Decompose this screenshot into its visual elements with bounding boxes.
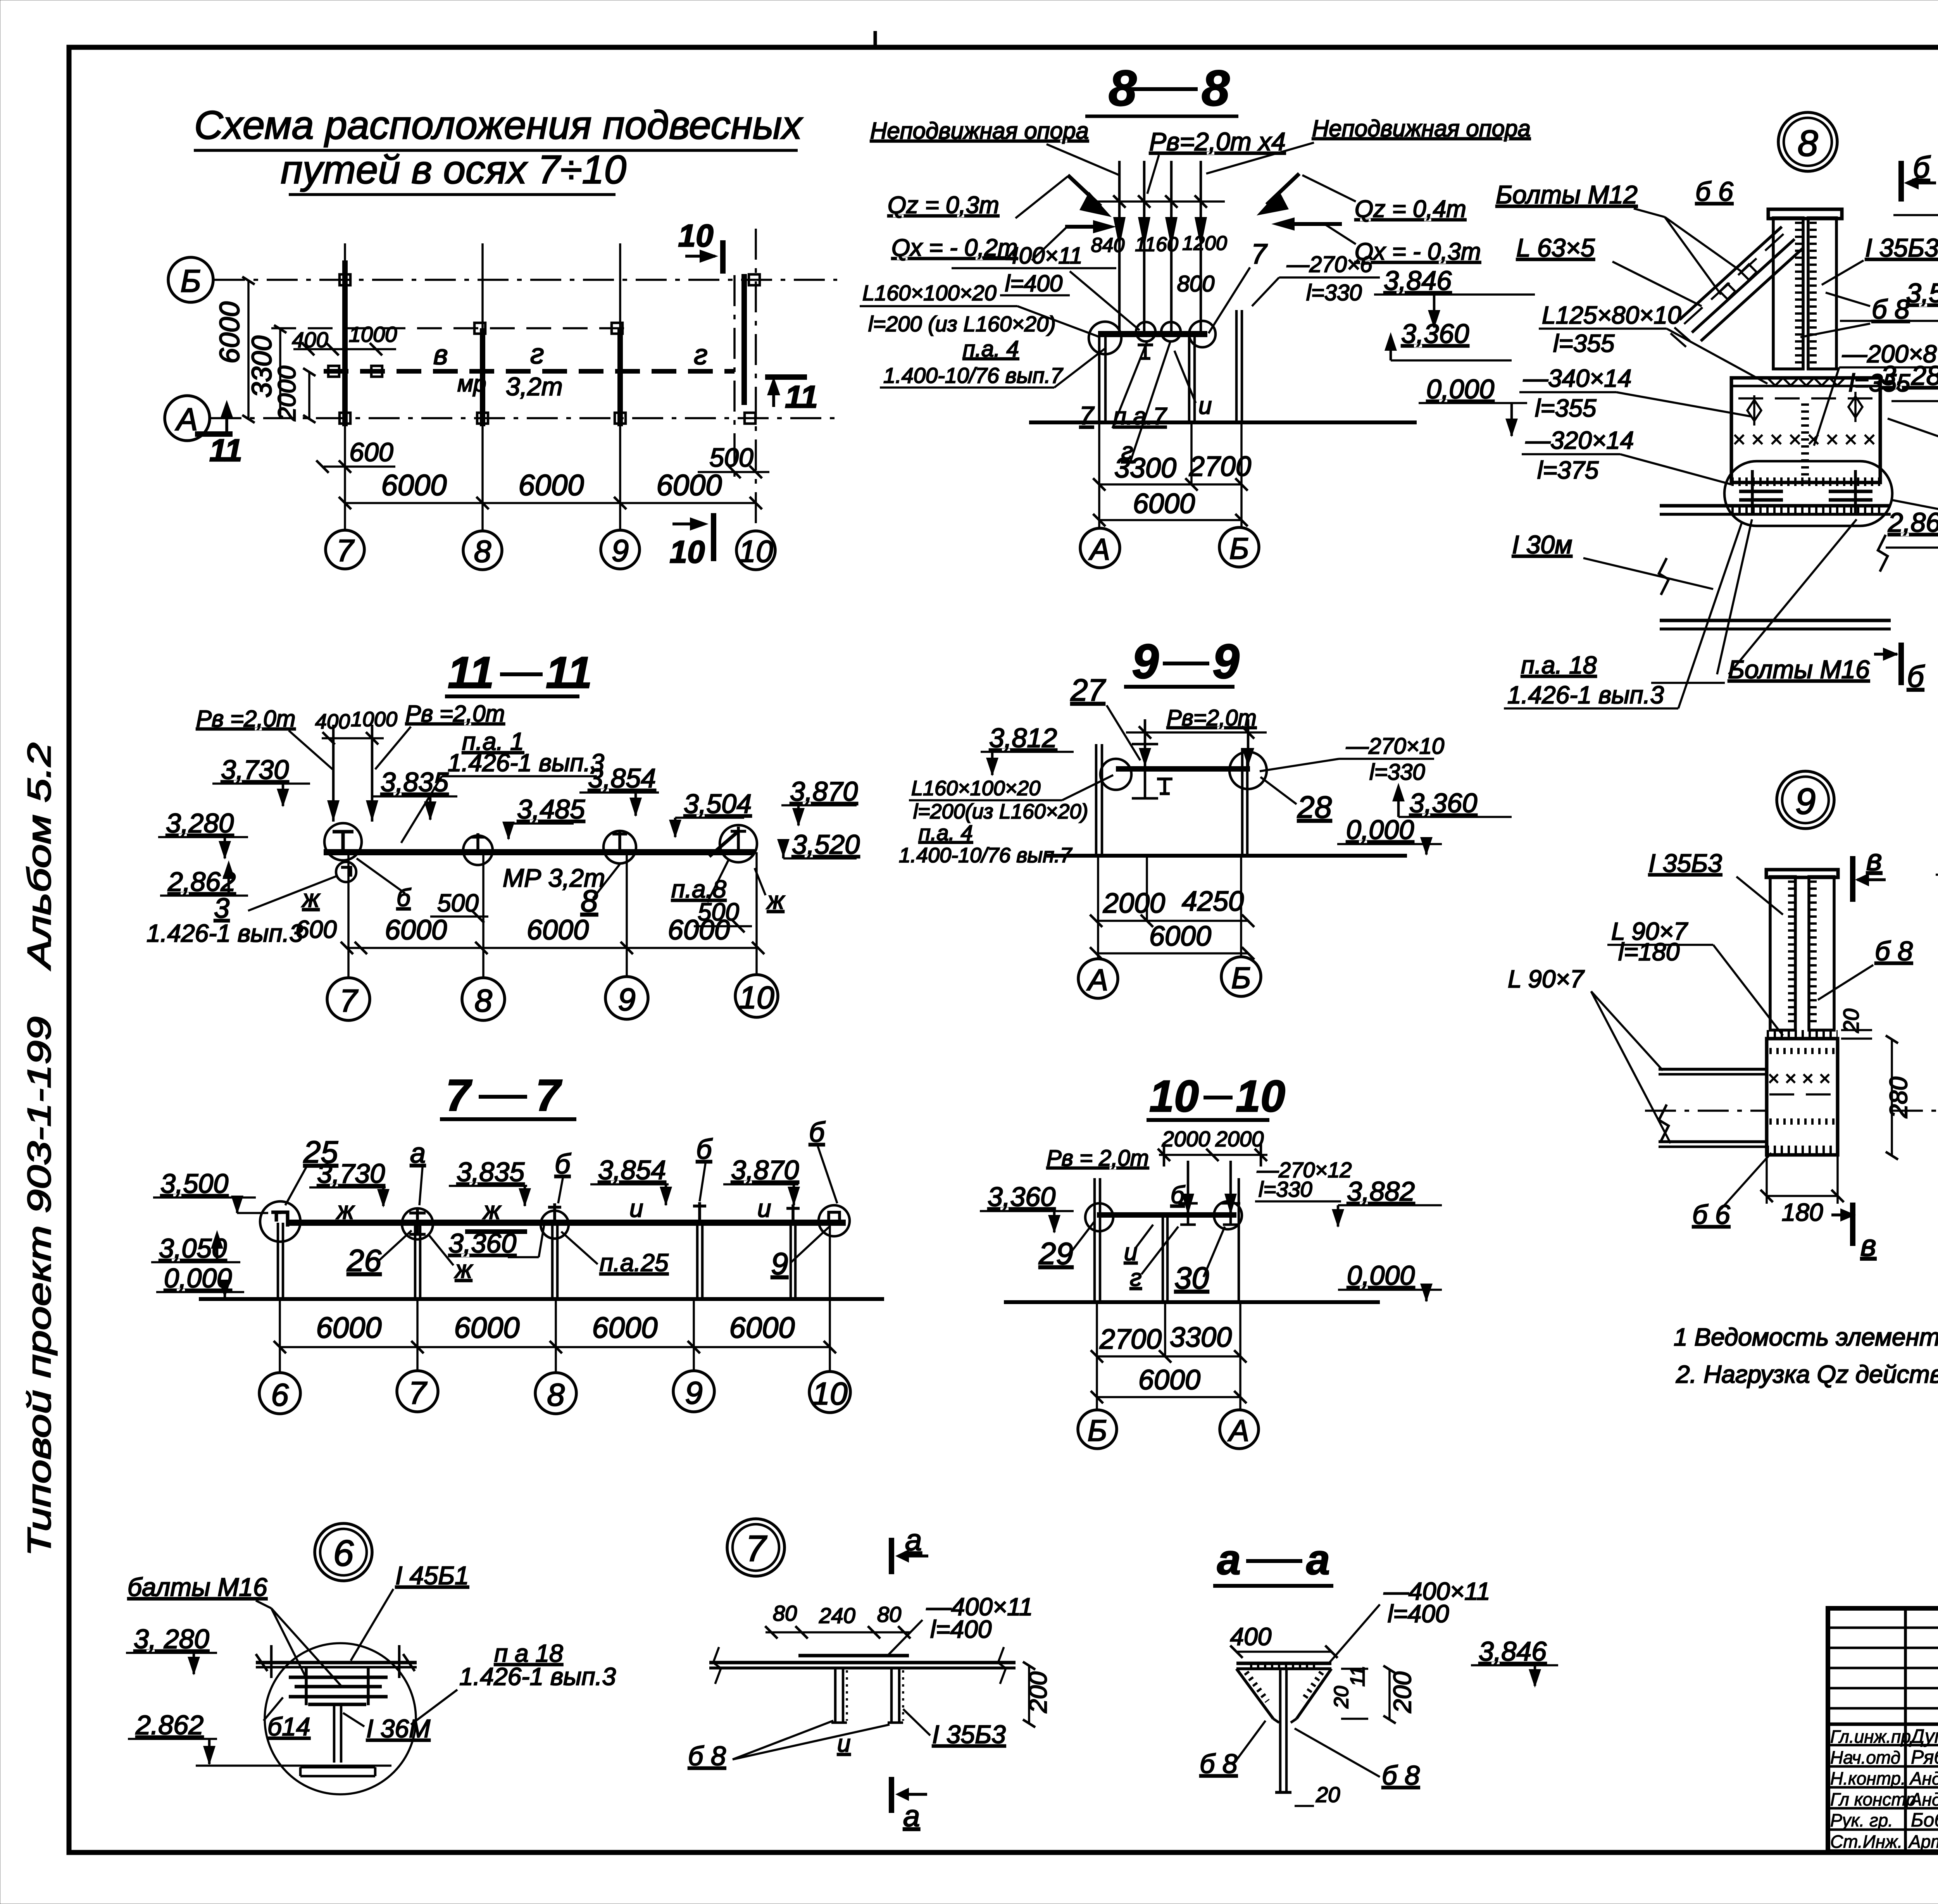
plate top (а-а): [1236, 1662, 1331, 1665]
axis bubble 8: [463, 531, 502, 570]
svg-text:I 45Б1: I 45Б1: [395, 1561, 469, 1590]
joint circle axis10: [720, 825, 757, 862]
title underline: [1124, 685, 1235, 689]
svg-text:6: 6: [271, 1377, 289, 1413]
svg-text:200: 200: [1388, 1671, 1416, 1713]
svg-text:Болты М16: Болты М16: [1728, 655, 1870, 684]
axis bubble 7: [397, 1371, 438, 1412]
svg-text:9: 9: [612, 533, 629, 568]
axis line 7: [344, 243, 346, 531]
svg-text:а: а: [410, 1138, 426, 1169]
svg-text:Б: Б: [180, 264, 201, 299]
svg-text:Нач.отд: Нач.отд: [1830, 1747, 1900, 1768]
node bubble 8: [1778, 112, 1837, 171]
svg-text:Б: Б: [1088, 1413, 1107, 1447]
box bolts diamonds: [1747, 400, 1761, 421]
axis line Б: [214, 279, 837, 281]
node bubble 7: [727, 1519, 785, 1576]
column Б (8-8): [1235, 310, 1238, 422]
axis bubble 10 (11-11): [735, 975, 778, 1017]
svg-text:1 Ведомость элементов дана: 1 Ведомость элементов дана на листе КМ- …: [1674, 1323, 1938, 1351]
svg-text:Неподвижная опора: Неподвижная опора: [1312, 115, 1531, 141]
svg-text:I 35Б3: I 35Б3: [1865, 233, 1938, 262]
section marker в top (node9): [1850, 856, 1855, 902]
axis bubble 8: [535, 1373, 576, 1414]
svg-text:6000: 6000: [1149, 921, 1211, 952]
svg-text:3,485: 3,485: [517, 794, 585, 824]
svg-text:Андриевская: Андриевская: [1909, 1768, 1938, 1789]
beam soffit line node6: [256, 1661, 417, 1664]
svg-text:2000: 2000: [1103, 888, 1165, 919]
svg-text:9: 9: [1132, 635, 1159, 689]
web (а-а): [1279, 1669, 1282, 1792]
column A stem (9-9): [1095, 744, 1098, 856]
svg-text:26: 26: [347, 1243, 381, 1278]
beam centerline dashdot (node9): [1645, 1110, 1767, 1112]
column A (8-8): [1098, 337, 1101, 422]
axis bubble 10: [809, 1372, 850, 1413]
axis bubble 9 (11-11): [605, 977, 648, 1019]
svg-text:3,2т: 3,2т: [506, 372, 563, 401]
svg-text:3,504: 3,504: [684, 789, 752, 819]
axis line 8: [481, 243, 484, 531]
dim 6000 (10-10): [1097, 1396, 1240, 1398]
title underline 2: [289, 193, 616, 196]
hanger axis8: [548, 1203, 561, 1223]
beam axis 9: [617, 328, 623, 426]
svg-text:1.426-1 вып.3: 1.426-1 вып.3: [147, 919, 303, 947]
svg-text:I 35Б3: I 35Б3: [932, 1720, 1006, 1749]
svg-text:Рв =2,0т: Рв =2,0т: [405, 701, 505, 727]
dim 2700/3300: [1097, 1355, 1240, 1358]
svg-text:11: 11: [448, 648, 494, 698]
xxx weld band (node8): [1735, 435, 1874, 444]
joint circle 3: [1161, 322, 1181, 341]
column Б stem (10-10): [1093, 1178, 1096, 1302]
load ticks 9-9: [1126, 731, 1267, 734]
svg-text:б 6: б 6: [1695, 176, 1733, 207]
svg-text:2. Нагрузка Qz действует вд: 2. Нагрузка Qz действует вдоль трассы: [1676, 1360, 1938, 1388]
dim 200 (а-а): [1388, 1669, 1391, 1719]
svg-text:3,360: 3,360: [448, 1228, 516, 1258]
svg-text:а: а: [903, 1799, 920, 1833]
svg-text:8: 8: [474, 534, 491, 569]
track symbol below beam: [1138, 345, 1153, 358]
svg-text:Qx = - 0,3т: Qx = - 0,3т: [1355, 238, 1481, 265]
svg-text:б 8: б 8: [1200, 1749, 1238, 1779]
svg-text:6000: 6000: [316, 1311, 381, 1344]
svg-text:Рв = 2,0т: Рв = 2,0т: [1047, 1146, 1149, 1171]
column 35Б3 left flange (node8): [1773, 218, 1803, 369]
svg-text:l=375: l=375: [1537, 456, 1599, 484]
svg-text:4250: 4250: [1182, 886, 1244, 917]
joint circle right (10-10): [1214, 1201, 1242, 1229]
bracket box (node8): [1731, 378, 1880, 482]
svg-text:3, 280: 3, 280: [134, 1624, 209, 1654]
svg-text:l=355: l=355: [1535, 394, 1597, 422]
hanger axis9: [693, 1202, 706, 1223]
svg-text:3300: 3300: [1170, 1322, 1232, 1353]
svg-text:ж: ж: [482, 1196, 502, 1224]
svg-text:ж: ж: [454, 1255, 473, 1283]
xxx band (node9): [1769, 1074, 1829, 1083]
svg-text:—340×14: —340×14: [1523, 364, 1631, 392]
svg-text:L 63×5: L 63×5: [1516, 233, 1595, 262]
load arrow 4: [1200, 161, 1202, 333]
detail loop (node8): [1724, 461, 1892, 526]
svg-text:3,360: 3,360: [1409, 788, 1477, 818]
svg-text:б14: б14: [267, 1712, 310, 1741]
svg-text:9: 9: [771, 1246, 788, 1281]
svg-text:l=400: l=400: [1388, 1600, 1449, 1628]
detail circle node6: [265, 1643, 416, 1794]
joint circle 2: [1136, 322, 1155, 341]
anchor bolts (node8): [1751, 470, 1754, 515]
svg-text:Рябуха: Рябуха: [1911, 1746, 1938, 1768]
svg-text:3,835: 3,835: [457, 1157, 525, 1187]
svg-text:Б: Б: [1229, 531, 1249, 565]
title underline: [1085, 115, 1238, 118]
beam from left top (node9): [1659, 1068, 1767, 1071]
level line 2.862 node6: [196, 1764, 391, 1767]
svg-text:п.а.25: п.а.25: [600, 1249, 669, 1277]
node bubble 9: [1777, 771, 1834, 829]
svg-text:Андриевская: Андриевская: [1909, 1789, 1938, 1809]
svg-text:б 8: б 8: [688, 1741, 726, 1771]
axis bubble 7: [326, 530, 364, 569]
seat toothed (node9): [1767, 1030, 1838, 1038]
svg-text:Гл констр: Гл констр: [1830, 1789, 1916, 1809]
svg-text:7: 7: [1079, 401, 1095, 430]
beam 9-9: [1116, 766, 1250, 772]
svg-text:l=200 (из L160×20): l=200 (из L160×20): [868, 312, 1056, 336]
title underline 1: [194, 149, 798, 152]
svg-text:Ст.Инж.: Ст.Инж.: [1830, 1832, 1902, 1852]
svg-text:600: 600: [349, 438, 393, 467]
joint circle right: [1189, 321, 1216, 347]
svg-text:а: а: [1306, 1536, 1330, 1584]
svg-text:80: 80: [877, 1602, 901, 1627]
beam axis 8: [480, 328, 485, 426]
joint circle left (9-9): [1100, 759, 1131, 790]
svg-text:800: 800: [1177, 271, 1215, 296]
box dashes: [1769, 1093, 1835, 1096]
hanger stem (10-10): [1162, 1215, 1164, 1302]
dim line 7-7: [280, 1346, 830, 1348]
column 35Б3 right flange (node8): [1808, 218, 1836, 369]
suspension ticks (9-9): [1144, 767, 1147, 798]
svg-text:l=330: l=330: [1369, 760, 1425, 785]
seat weld band top (node8): [1731, 385, 1880, 388]
svg-text:3,812: 3,812: [989, 723, 1057, 753]
top centering tick: [874, 31, 877, 47]
track stub 7-7: [465, 1229, 527, 1234]
svg-text:п.а. 18: п.а. 18: [1521, 651, 1597, 679]
svg-text:3,846: 3,846: [1479, 1636, 1547, 1666]
axis stems (9-9): [1097, 856, 1099, 959]
svg-text:20: 20: [1316, 1782, 1340, 1807]
axis bubble 8 (11-11): [462, 978, 505, 1020]
svg-text:А: А: [1228, 1413, 1249, 1447]
load arrows 10-10: [1187, 1161, 1190, 1213]
beam axis 10: [741, 274, 747, 405]
svg-text:11: 11: [209, 433, 242, 468]
svg-text:б: б: [809, 1117, 826, 1148]
svg-text:3,730: 3,730: [221, 755, 289, 785]
svg-text:0,000: 0,000: [1346, 815, 1414, 845]
intermediate dashed line: [271, 327, 636, 329]
I beam 36М node6: [308, 1703, 366, 1706]
joint circle axis8: [463, 836, 493, 865]
svg-text:Рв =2,0т: Рв =2,0т: [196, 706, 295, 732]
svg-text:3,500: 3,500: [160, 1168, 228, 1199]
svg-text:2700: 2700: [1099, 1324, 1162, 1355]
axis bubble Б (10-10): [1078, 1410, 1117, 1449]
axis bubble А (10-10): [1220, 1410, 1259, 1449]
svg-text:20: 20: [1330, 1686, 1353, 1709]
axis bubble Б (9-9): [1221, 957, 1261, 996]
svg-text:ж: ж: [766, 886, 785, 914]
svg-text:и: и: [629, 1194, 643, 1222]
svg-text:ж: ж: [336, 1196, 355, 1224]
hanger post: [786, 1204, 800, 1223]
svg-text:6000: 6000: [385, 915, 447, 946]
Qx left arrow: [1065, 225, 1097, 229]
section marker в bottom (node9): [1850, 1203, 1855, 1246]
svg-text:а: а: [905, 1523, 922, 1557]
svg-text:Болты М12: Болты М12: [1496, 180, 1638, 209]
small dim line 400/1000: [293, 348, 396, 350]
svg-text:3,504: 3,504: [1906, 278, 1938, 308]
bottom toothed band (node8): [1731, 477, 1880, 486]
svg-text:6000: 6000: [1133, 488, 1195, 519]
svg-text:г: г: [1130, 1265, 1142, 1291]
svg-text:L 90×7: L 90×7: [1508, 965, 1585, 993]
svg-text:3,870: 3,870: [790, 776, 858, 806]
svg-text:1.426-1 вып.3: 1.426-1 вып.3: [459, 1663, 616, 1690]
plate 400x11 (node7): [798, 1654, 909, 1658]
column top cap (node8): [1768, 209, 1842, 219]
svg-text:и: и: [757, 1194, 771, 1222]
load arrow 2: [1143, 161, 1146, 333]
axis bubble 10: [736, 531, 775, 570]
axis stems (10-10): [1096, 1302, 1098, 1410]
diagonal brace L63x5 (node8): [1679, 227, 1782, 320]
svg-text:в: в: [433, 339, 448, 370]
svg-text:280: 280: [1885, 1077, 1912, 1118]
svg-text:в: в: [1866, 843, 1882, 877]
title underline: [440, 1117, 576, 1121]
svg-text:7: 7: [536, 1071, 562, 1120]
dim 2000/4250: [1096, 920, 1248, 922]
joint circle axis10: [819, 1205, 850, 1236]
joint I-symbol axis7: [324, 823, 362, 860]
svg-text:7: 7: [336, 533, 355, 568]
svg-text:3,846: 3,846: [1384, 265, 1452, 296]
column plate squares: [340, 274, 350, 285]
load arrow 3: [1170, 161, 1173, 333]
svg-text:8: 8: [581, 884, 598, 918]
bottom dimension line: [345, 502, 756, 504]
svg-text:11: 11: [546, 648, 592, 698]
axis line А: [210, 417, 837, 419]
svg-text:0,000: 0,000: [1347, 1260, 1415, 1291]
marker а bottom (node7): [889, 1777, 894, 1813]
break mark beam left: [1659, 558, 1669, 595]
svg-text:балты М16: балты М16: [128, 1573, 267, 1601]
svg-text:7: 7: [746, 1528, 767, 1569]
svg-text:Рв=2,0т х4: Рв=2,0т х4: [1149, 127, 1286, 156]
svg-text:3,854: 3,854: [598, 1155, 666, 1185]
svg-text:А: А: [1088, 532, 1110, 566]
axis bubble 6: [259, 1373, 300, 1414]
svg-text:8: 8: [1798, 123, 1818, 164]
track symbol (9-9): [1157, 779, 1172, 794]
svg-text:1.400-10/76 вып.7: 1.400-10/76 вып.7: [883, 363, 1063, 388]
svg-text:27: 27: [1070, 673, 1106, 707]
svg-text:600: 600: [295, 915, 337, 943]
bolted plates node6: [289, 1676, 388, 1679]
ground line 8-8: [1029, 420, 1417, 424]
hook below axis7: [336, 862, 356, 882]
joint circle axis9: [603, 831, 636, 863]
svg-text:6000: 6000: [592, 1311, 657, 1344]
svg-text:l=400: l=400: [930, 1615, 992, 1643]
rib 2 (node7): [890, 1668, 893, 1723]
svg-text:11: 11: [785, 379, 818, 415]
svg-text:6: 6: [333, 1533, 354, 1574]
hatch on slants: [1246, 1672, 1267, 1701]
svg-text:и: и: [1198, 393, 1212, 419]
column 35Б3 left flange (node9): [1770, 877, 1795, 1030]
svg-text:840: 840: [1091, 234, 1125, 257]
svg-text:6000: 6000: [668, 915, 730, 946]
svg-text:1160: 1160: [1135, 233, 1178, 256]
svg-text:28: 28: [1297, 790, 1332, 824]
svg-text:8: 8: [1202, 60, 1230, 116]
svg-text:2000: 2000: [273, 365, 301, 421]
axis line 10: [755, 229, 757, 531]
svg-text:Думан: Думан: [1909, 1725, 1938, 1747]
beam 10-10: [1097, 1212, 1236, 1218]
svg-text:10: 10: [739, 534, 773, 569]
bracket box (node9): [1767, 1039, 1838, 1155]
beam 7-7: [287, 1220, 846, 1226]
dim line 11-11: [347, 947, 758, 949]
svg-text:10: 10: [678, 218, 713, 253]
svg-text:2000: 2000: [1162, 1127, 1210, 1151]
load arrow 1: [1118, 161, 1121, 333]
svg-text:3300: 3300: [1114, 453, 1176, 484]
svg-text:l=330: l=330: [1259, 1177, 1312, 1201]
svg-text:а: а: [1217, 1536, 1241, 1584]
svg-text:Б: Б: [1231, 961, 1251, 995]
svg-text:6000: 6000: [381, 469, 447, 502]
svg-text:l=400: l=400: [1005, 271, 1062, 296]
svg-text:А: А: [1086, 963, 1108, 997]
svg-text:l=330: l=330: [1306, 280, 1362, 305]
beam from left bottom (node9): [1659, 1140, 1767, 1143]
marker а top (node7): [889, 1538, 894, 1574]
svg-text:3, 280: 3, 280: [1881, 360, 1938, 391]
svg-text:7: 7: [1251, 239, 1268, 270]
svg-text:1000: 1000: [351, 708, 397, 731]
svg-text:3,835: 3,835: [381, 767, 449, 797]
svg-text:2000: 2000: [1215, 1127, 1264, 1151]
svg-text:l=200(из L160×20): l=200(из L160×20): [913, 800, 1088, 823]
svg-text:7: 7: [446, 1071, 472, 1120]
svg-text:0,000: 0,000: [1426, 374, 1494, 404]
dim line 3300/2700: [1099, 483, 1241, 486]
axis circle А: [165, 396, 210, 441]
axis stems (11-11): [347, 852, 350, 978]
axis bubble А (9-9): [1078, 959, 1118, 998]
ground 10-10: [1004, 1300, 1380, 1304]
svg-text:3,520: 3,520: [792, 829, 860, 860]
svg-text:б: б: [555, 1149, 571, 1180]
dashed line in box: [1738, 397, 1874, 400]
svg-text:7: 7: [409, 1375, 428, 1411]
svg-text:Неподвижная опора: Неподвижная опора: [870, 118, 1089, 144]
beam 30M bottom flange (node8): [1660, 619, 1891, 622]
ground 9-9: [1047, 854, 1407, 858]
svg-text:9: 9: [685, 1375, 703, 1411]
svg-text:1.426-1 вып.3: 1.426-1 вып.3: [448, 749, 604, 777]
beam axis 7: [342, 260, 348, 426]
toothed soffit band: [1731, 506, 1880, 514]
svg-text:10: 10: [739, 980, 774, 1015]
svg-text:6000: 6000: [518, 469, 584, 502]
svg-text:I 35Б3: I 35Б3: [1648, 849, 1722, 877]
title block outer: [1828, 1608, 1938, 1852]
beam 11-11: [324, 849, 755, 855]
svg-text:мр: мр: [457, 370, 486, 396]
brace break mark: [1671, 327, 1690, 347]
brace bolts: [1741, 264, 1757, 280]
joint circle right (9-9): [1229, 752, 1267, 789]
svg-text:10: 10: [1236, 1072, 1285, 1121]
load arrow axis7 b: [371, 725, 374, 822]
svg-text:I 36М: I 36М: [366, 1714, 430, 1743]
axis stems to bubbles 7-7: [279, 1299, 281, 1372]
axis bubble Б (8-8): [1219, 527, 1259, 567]
joint circle left: [1089, 322, 1121, 354]
svg-text:1000: 1000: [349, 322, 397, 346]
title underline: [1213, 1584, 1333, 1588]
box top toothed: [1769, 1048, 1835, 1054]
svg-text:6000: 6000: [527, 915, 589, 946]
svg-text:3,730: 3,730: [317, 1158, 385, 1189]
joint symbol axis7: [402, 1208, 433, 1239]
svg-text:3,854: 3,854: [588, 763, 656, 793]
svg-text:Qz = 0,3т: Qz = 0,3т: [888, 192, 999, 219]
svg-text:—270×10: —270×10: [1346, 734, 1444, 759]
svg-text:8: 8: [547, 1377, 565, 1413]
svg-text:в: в: [1860, 1228, 1876, 1262]
column 35Б3 right flange (node9): [1809, 877, 1834, 1030]
svg-text:Бобрук: Бобрук: [1911, 1809, 1938, 1831]
svg-text:L160×100×20: L160×100×20: [911, 777, 1040, 800]
base pads (node8): [1739, 490, 1783, 493]
svg-text:l=355: l=355: [1553, 329, 1615, 357]
column Б stem (9-9): [1241, 748, 1244, 856]
svg-text:10: 10: [669, 534, 705, 570]
svg-text:1.400-10/76 вып.7: 1.400-10/76 вып.7: [899, 844, 1072, 867]
svg-text:—400×11: —400×11: [982, 243, 1082, 269]
svg-text:3,360: 3,360: [1401, 319, 1469, 349]
Qx right arrow: [1291, 222, 1342, 226]
svg-text:б: б: [696, 1134, 713, 1165]
